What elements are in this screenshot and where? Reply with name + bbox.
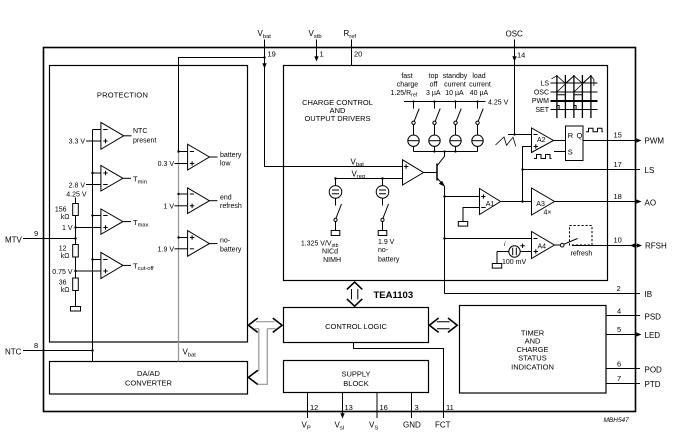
wire bus to NTC present minus — [93, 129, 101, 131]
svg-text:refresh: refresh — [220, 203, 242, 210]
wire comparator input bus — [92, 130, 94, 362]
op-amp A2 — [532, 128, 554, 153]
svg-text:R: R — [568, 131, 574, 140]
svg-text:SET: SET — [535, 107, 549, 114]
svg-text:5: 5 — [617, 325, 621, 334]
svg-text:TEA1103: TEA1103 — [374, 290, 414, 301]
svg-text:no-: no- — [220, 238, 231, 245]
comparator Tmin — [101, 166, 147, 192]
svg-text:battery: battery — [378, 256, 400, 263]
arrowhead AO — [636, 199, 641, 203]
node bus Tcut-off — [91, 258, 93, 260]
svg-text:INDICATION: INDICATION — [511, 362, 554, 371]
svg-text:PSD: PSD — [645, 312, 662, 321]
svg-text:20: 20 — [354, 50, 362, 59]
svg-text:OSC: OSC — [534, 90, 549, 97]
node rail no-battery — [177, 236, 179, 238]
wire 1V to end-refresh plus — [175, 205, 188, 207]
wire S input stub — [554, 151, 566, 153]
svg-text:6: 6 — [617, 360, 621, 369]
switch top off — [433, 100, 440, 135]
wire R12 to R36 — [75, 257, 77, 278]
svg-text:VS: VS — [369, 421, 378, 432]
node bus NTC junction — [91, 349, 93, 351]
svg-text:POD: POD — [645, 365, 663, 374]
svg-text:AO: AO — [645, 198, 657, 207]
node rail battery-low — [177, 150, 179, 152]
wire pin 17 LS — [523, 169, 641, 171]
square wave symbol at Q output — [586, 128, 603, 132]
transistor Q1 base bar — [436, 164, 438, 181]
comparator no-battery — [188, 231, 242, 257]
comparator Tmax — [101, 209, 149, 234]
bidirectional arrow control logic to protection (gray shaft) — [248, 318, 282, 332]
DA/AD converter box — [50, 362, 248, 395]
svg-text:STATUS: STATUS — [518, 354, 546, 363]
svg-text:A2: A2 — [537, 137, 546, 144]
svg-text:4.25 V: 4.25 V — [66, 192, 87, 199]
wire A2 plus input from A1 output node — [523, 147, 532, 202]
wire pin 3 GND — [411, 393, 413, 419]
wire pin 18 AO — [555, 201, 640, 203]
square wave symbol under A2 — [534, 155, 552, 159]
node OSC sawtooth junction — [513, 133, 515, 135]
svg-text:Vbat: Vbat — [258, 29, 272, 40]
svg-text:Rref: Rref — [344, 29, 357, 40]
wire A1 minus to ground — [463, 208, 480, 222]
svg-text:i: i — [504, 241, 506, 248]
arrowhead RFSH right — [637, 243, 642, 247]
svg-text:NTC: NTC — [5, 348, 22, 357]
svg-text:A1: A1 — [486, 201, 495, 208]
node pin19 / Vbat rail junction — [263, 56, 265, 58]
svg-text:3: 3 — [415, 403, 419, 412]
svg-text:9: 9 — [34, 229, 38, 238]
switch fast charge — [412, 100, 419, 135]
resistor 156 kOhm — [73, 204, 79, 216]
svg-text:40 µA: 40 µA — [470, 90, 489, 97]
wire pin 6 POD — [606, 368, 640, 370]
svg-text:CONTROL LOGIC: CONTROL LOGIC — [325, 322, 387, 331]
node 0.75V tap — [74, 270, 76, 272]
svg-text:MTV: MTV — [5, 236, 23, 245]
wire current source bus — [414, 151, 478, 153]
svg-text:1.9 V: 1.9 V — [158, 246, 175, 253]
node MTV at chip edge — [42, 237, 44, 239]
svg-text:A4: A4 — [538, 243, 547, 250]
hollow arrow down to DA/AD converter (gray) — [248, 329, 267, 385]
wire rail to end-refresh minus — [179, 193, 188, 195]
wire bus to Tmax minus — [93, 215, 101, 217]
svg-text:10 µA: 10 µA — [445, 90, 464, 97]
control logic box — [284, 308, 429, 343]
svg-text:Vbat: Vbat — [183, 348, 197, 359]
svg-text:LED: LED — [645, 331, 661, 340]
supply block box — [284, 361, 429, 393]
waveform grid verticals — [557, 75, 591, 118]
svg-text:1.325 V/Vstb: 1.325 V/Vstb — [301, 240, 339, 249]
svg-text:Tcut-off: Tcut-off — [133, 261, 154, 272]
current source fast charge — [408, 135, 419, 152]
svg-text:Vstb: Vstb — [309, 29, 322, 40]
svg-text:PWM: PWM — [532, 98, 549, 105]
svg-text:present: present — [133, 137, 156, 144]
svg-text:PWM: PWM — [645, 137, 665, 146]
switch refresh — [555, 239, 578, 248]
arrowhead emitter — [439, 181, 445, 187]
wire pin 12 VP — [307, 393, 309, 419]
svg-text:15: 15 — [614, 131, 622, 140]
wire pin 7 PTD — [606, 383, 640, 385]
svg-text:no-: no- — [378, 247, 389, 254]
wire A1 output to A3 — [501, 201, 532, 203]
wire 4.25V to R156 — [75, 198, 77, 204]
dashed box refresh — [570, 226, 593, 246]
comparator battery low — [188, 144, 242, 170]
wire 0.75V tap to Tcut-off plus — [76, 270, 101, 272]
switch standby current — [454, 100, 461, 135]
svg-text:current: current — [444, 81, 466, 88]
wire pin 14 OSC down to A2 input — [514, 40, 516, 135]
sawtooth symbol at A2 input — [496, 137, 516, 146]
wire pin 11 FCT from control logic — [354, 343, 444, 419]
svg-text:S: S — [568, 148, 573, 157]
svg-text:4: 4 — [617, 307, 621, 316]
node Vreg source 2 — [381, 177, 383, 179]
svg-text:kΩ: kΩ — [61, 253, 70, 260]
bidirectional arrow charge control to control logic — [347, 282, 362, 306]
svg-text:RFSH: RFSH — [645, 241, 667, 250]
resistor 12 kOhm — [73, 245, 79, 258]
svg-text:A3: A3 — [536, 201, 545, 208]
voltage source 1.325 V/Vstb — [329, 179, 342, 236]
svg-text:3.3 V: 3.3 V — [69, 139, 86, 146]
wire 1V tap to Tmax plus — [76, 227, 101, 229]
svg-text:19: 19 — [268, 50, 276, 59]
wire pin 19 Vbat down then right to error amp — [265, 40, 403, 167]
svg-text:8: 8 — [34, 341, 38, 350]
svg-text:off: off — [430, 81, 438, 88]
svg-text:156: 156 — [55, 207, 67, 214]
arrowhead pin 1 — [314, 56, 318, 61]
svg-text:NIMH: NIMH — [323, 257, 341, 264]
svg-text:LS: LS — [540, 81, 549, 88]
comparator NTC present — [101, 122, 157, 149]
svg-text:SUPPLY: SUPPLY — [341, 369, 370, 378]
arrowhead PWM — [636, 138, 641, 142]
switch load current — [476, 100, 483, 135]
svg-text:end: end — [220, 194, 232, 201]
svg-text:standby: standby — [443, 73, 468, 80]
svg-text:7: 7 — [617, 374, 621, 383]
ground resistor chain — [71, 307, 81, 312]
wire collector stub — [437, 152, 445, 166]
arrowhead LED — [636, 332, 641, 336]
svg-text:VP: VP — [302, 421, 311, 432]
current source standby — [450, 135, 461, 152]
svg-text:current: current — [469, 81, 491, 88]
waveform baseline PWM thick — [551, 100, 598, 102]
svg-text:4×: 4× — [544, 209, 552, 216]
waveform SET pulses — [557, 106, 576, 110]
wire Vbat rail elbow to left — [179, 58, 265, 152]
svg-text:kΩ: kΩ — [61, 287, 70, 294]
comparator end refresh — [188, 188, 242, 214]
wire rail to no-battery plus — [179, 237, 188, 239]
svg-text:1: 1 — [320, 50, 324, 59]
svg-text:PROTECTION: PROTECTION — [97, 91, 148, 100]
wire bus to Tmin plus — [93, 172, 101, 174]
svg-text:36: 36 — [59, 280, 67, 287]
arrowhead Vsl — [340, 413, 344, 418]
node bus Tmin — [91, 172, 93, 174]
svg-text:3 µA: 3 µA — [426, 90, 441, 97]
svg-text:GND: GND — [403, 421, 421, 430]
wire pin 2 IB — [445, 293, 641, 295]
svg-text:CONVERTER: CONVERTER — [125, 378, 173, 387]
svg-text:12: 12 — [59, 246, 67, 253]
wire emitter node to A4 minus — [445, 238, 532, 240]
node LS tap — [521, 168, 523, 170]
svg-text:10: 10 — [614, 236, 622, 245]
wire A2 output to R input — [554, 140, 566, 142]
bidirectional arrow control logic to timer — [429, 318, 457, 332]
op-amp A4 — [532, 232, 555, 259]
svg-text:11: 11 — [446, 403, 454, 412]
wire pin 9 MTV to resistor chain — [23, 238, 76, 240]
wire OSC to A2 minus — [508, 134, 532, 136]
svg-text:BLOCK: BLOCK — [343, 379, 368, 388]
node 1V tap — [74, 226, 76, 228]
svg-text:1.25/Rref: 1.25/Rref — [391, 90, 418, 99]
svg-text:100 mV: 100 mV — [502, 259, 526, 266]
svg-text:fast: fast — [401, 73, 412, 80]
resistor 36 kOhm — [73, 278, 79, 291]
waveform sawtooth 1 — [557, 76, 591, 92]
wire 4.25V supply line — [404, 101, 486, 103]
wire pin 10 RFSH — [572, 245, 639, 247]
svg-text:low: low — [220, 160, 231, 167]
wire Vreg line — [336, 178, 403, 180]
node emitter A4 — [443, 237, 445, 239]
timer and charge status indication box — [460, 306, 607, 394]
node MTV tap — [74, 237, 76, 239]
flip-flop RS — [566, 126, 584, 161]
op-amp error amplifier — [403, 160, 424, 185]
transistor Q1 emitter — [437, 178, 445, 186]
arrowhead pin 19 into chip — [262, 63, 266, 68]
wire emitter down to IB — [444, 186, 446, 293]
arrowhead RFSH left — [630, 243, 635, 247]
wire 0.3V to battery-low plus — [175, 163, 188, 165]
wire bus to Tcut-off minus — [93, 259, 101, 261]
svg-text:17: 17 — [614, 160, 622, 169]
op-amp A1 — [480, 189, 501, 215]
svg-text:0.3 V: 0.3 V — [158, 161, 175, 168]
svg-text:PTD: PTD — [645, 380, 661, 389]
svg-text:2.8 V: 2.8 V — [69, 182, 86, 189]
current source load — [472, 135, 483, 152]
svg-text:Vsl: Vsl — [335, 421, 345, 432]
wire rail to battery-low minus — [179, 151, 188, 153]
wire R156 to R12 — [75, 216, 77, 245]
svg-text:LS: LS — [645, 166, 655, 175]
svg-text:refresh: refresh — [571, 250, 593, 257]
wire 3.3V to NTC present plus — [86, 140, 101, 142]
waveform sawtooth 2 — [552, 76, 594, 86]
svg-text:1 V: 1 V — [163, 203, 174, 210]
protection block box — [50, 66, 248, 343]
wire emitter node to A1 plus — [445, 196, 480, 198]
svg-text:Tmax: Tmax — [133, 218, 149, 229]
wire pin 4 PSD — [606, 315, 640, 317]
wire pin 16 VS — [376, 393, 378, 419]
svg-text:1.9 V: 1.9 V — [378, 239, 395, 246]
voltage source 100 mV — [492, 241, 531, 268]
svg-text:1 V: 1 V — [62, 225, 73, 232]
wire base from error amp — [424, 172, 437, 174]
wire 1.9V to no-battery minus — [175, 248, 188, 250]
svg-text:12: 12 — [310, 403, 318, 412]
node Vreg source 1 — [334, 177, 336, 179]
svg-text:NTC: NTC — [133, 128, 147, 135]
wire R36 to ground — [75, 291, 77, 307]
arrowhead pin 14 — [512, 56, 516, 61]
wire pin 13 Vsl — [342, 393, 344, 415]
wire pin 15 PWM — [583, 140, 639, 142]
node emitter A1 — [443, 195, 445, 197]
svg-text:NICd: NICd — [322, 249, 338, 256]
svg-text:charge: charge — [397, 81, 419, 88]
current source top off — [429, 135, 440, 152]
svg-text:MBH547: MBH547 — [604, 417, 630, 424]
svg-text:top: top — [429, 73, 439, 80]
svg-text:FCT: FCT — [435, 421, 451, 430]
ground A1 — [458, 222, 467, 227]
chip outline TEA1103 — [44, 48, 636, 412]
svg-text:Tmin: Tmin — [133, 175, 147, 186]
svg-text:DA/AD: DA/AD — [137, 369, 161, 378]
waveform PWM pulses — [557, 95, 583, 101]
node A1 output / A2 plus tap — [521, 200, 523, 202]
svg-text:battery: battery — [220, 247, 242, 254]
comparator Tcut-off — [101, 252, 154, 278]
svg-text:0.75 V: 0.75 V — [52, 269, 73, 276]
svg-text:14: 14 — [517, 51, 525, 60]
op-amp A3 gain 4x — [532, 188, 555, 215]
svg-text:IB: IB — [645, 290, 653, 299]
wire pin 1 Vstb — [316, 40, 318, 57]
svg-text:battery: battery — [220, 152, 242, 159]
wire 2.8V to Tmin minus — [86, 184, 101, 186]
svg-text:OSC: OSC — [506, 30, 524, 39]
svg-text:4.25 V: 4.25 V — [488, 100, 509, 107]
svg-text:13: 13 — [345, 403, 353, 412]
voltage source 1.9 V no-battery — [376, 179, 389, 236]
waveform baseline OSC — [551, 91, 598, 93]
svg-text:OUTPUT DRIVERS: OUTPUT DRIVERS — [304, 114, 370, 123]
wire pin 5 LED — [606, 334, 639, 336]
waveform baseline SET — [551, 109, 598, 111]
wire pin 8 NTC to comparator bus — [23, 350, 93, 352]
node bus taps — [433, 150, 435, 152]
svg-text:load: load — [472, 73, 485, 80]
svg-text:2: 2 — [617, 284, 621, 293]
svg-text:16: 16 — [380, 403, 388, 412]
svg-text:Q: Q — [577, 131, 583, 140]
wire pin 20 Rref — [351, 40, 353, 66]
waveform baseline LS — [551, 82, 598, 84]
svg-text:18: 18 — [614, 192, 622, 201]
node NTC at chip edge — [42, 349, 44, 351]
wire Vbat gray rail down to DA/AD — [178, 152, 180, 362]
node rail end-refresh — [177, 193, 179, 195]
node bus Tmax — [91, 214, 93, 216]
svg-text:kΩ: kΩ — [61, 214, 70, 221]
charge control block box — [284, 66, 608, 281]
